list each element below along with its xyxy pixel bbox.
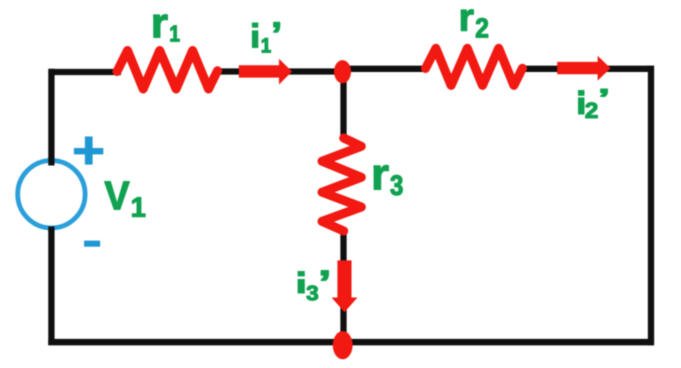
label V1 bbox=[105, 182, 146, 217]
label i2' bbox=[578, 89, 607, 118]
node A (top junction dot) bbox=[334, 60, 351, 83]
wire top-left segment bbox=[49, 69, 122, 75]
wire bottom bbox=[48, 339, 654, 346]
current arrow i1' bbox=[239, 59, 292, 85]
wire middle vertical upper bbox=[340, 69, 346, 141]
voltage source V1 bbox=[18, 161, 85, 228]
label r1 bbox=[154, 15, 180, 42]
wire middle vertical lower bbox=[340, 229, 346, 342]
wire right vertical bbox=[648, 66, 654, 346]
wire stub into source bottom bbox=[48, 227, 54, 233]
wire left vertical lower bbox=[48, 229, 54, 345]
label r2 bbox=[461, 10, 488, 38]
current arrow i3' bbox=[332, 260, 358, 312]
current arrow i2' bbox=[557, 56, 610, 81]
resistor r1 bbox=[117, 51, 218, 90]
label i3' bbox=[298, 271, 329, 301]
node B (bottom junction dot) bbox=[333, 331, 353, 359]
label r3 bbox=[374, 165, 402, 195]
wire top-right segment (r2 to corner) bbox=[520, 66, 654, 72]
minus sign of V1 bbox=[84, 241, 100, 247]
wire top-right segment (node to r2) bbox=[341, 66, 428, 72]
wire top-middle segment bbox=[214, 68, 346, 74]
resistor r3 bbox=[322, 138, 361, 231]
wire stub into source top bbox=[48, 158, 54, 166]
resistor r2 bbox=[426, 48, 523, 85]
plus sign of V1 bbox=[74, 137, 103, 165]
wire left vertical upper bbox=[48, 69, 54, 161]
label i1' bbox=[252, 23, 280, 53]
